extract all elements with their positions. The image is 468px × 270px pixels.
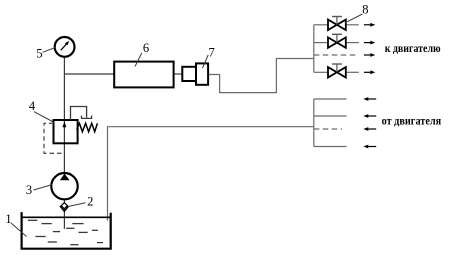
relief valve 4 spring	[77, 123, 98, 131]
wire: block 6 to block 7	[173, 73, 182, 75]
svg-text:5: 5	[36, 47, 42, 61]
leader 1	[11, 223, 27, 237]
wire: junction horizontal to block 6	[64, 73, 114, 75]
inlet arrow row B	[363, 114, 376, 118]
wire: return row A	[314, 98, 347, 100]
wire: row3 valve to outlet	[346, 71, 359, 73]
tank fluid surface	[22, 216, 111, 218]
relief valve 4 pilot seat	[82, 116, 92, 119]
svg-text:3: 3	[26, 183, 32, 197]
gauge 5	[55, 37, 75, 57]
outlet arrow row3	[364, 70, 375, 74]
outlet arrow row2	[364, 41, 375, 45]
wire: supply manifold vertical	[313, 25, 315, 73]
inlet arrow dashed row	[363, 127, 376, 131]
wire: row1 valve to outlet	[346, 24, 359, 26]
wire: main vertical line gauge-to-pump	[63, 57, 65, 173]
wire: return line to tank	[108, 127, 314, 221]
pump 3	[51, 173, 77, 199]
block 6	[114, 62, 173, 88]
outlet arrow dashed row	[364, 53, 375, 57]
wire: block 7 to valve manifold	[208, 59, 314, 93]
valve 8 row2	[328, 34, 346, 48]
svg-text:7: 7	[208, 46, 214, 60]
leader 8	[345, 14, 363, 23]
leader 3	[34, 185, 53, 191]
strainer 2 vee	[60, 206, 69, 211]
leader 4	[34, 112, 53, 122]
tank 1	[22, 212, 111, 249]
wire: suction line pump-to-tank	[63, 199, 65, 229]
leader 7	[203, 55, 209, 68]
leader 2	[68, 203, 86, 207]
svg-text:6: 6	[143, 41, 149, 55]
leader 6	[135, 53, 142, 67]
svg-text:1: 1	[5, 212, 11, 226]
block 7 tall	[196, 63, 208, 84]
wire: row3 manifold to valve	[314, 71, 328, 73]
tank fluid dashes	[28, 220, 103, 244]
valve 8 row1	[328, 17, 346, 31]
wire: return manifold vertical	[313, 99, 315, 147]
wire: row1 manifold to valve	[314, 24, 328, 26]
wire: return dashed row	[314, 128, 342, 130]
outlet arrow row1	[364, 23, 375, 27]
inlet arrow row C	[363, 145, 376, 149]
wire: dashed spare row	[314, 54, 359, 56]
leader 5	[43, 48, 56, 53]
svg-text:от двигателя: от двигателя	[382, 113, 442, 127]
relief valve 4 dashed pilot line	[44, 123, 63, 153]
gauge needle	[61, 43, 67, 50]
relief valve 4 flow arrowhead	[62, 122, 66, 127]
relief valve 4 body	[54, 120, 78, 143]
wire: return row C	[314, 146, 347, 148]
pump triangle	[60, 174, 70, 181]
strainer 2 diamond	[61, 203, 67, 209]
svg-text:2: 2	[87, 195, 93, 209]
wire: return row B	[314, 115, 347, 117]
inlet arrow row A	[363, 97, 376, 101]
wire: row2 manifold to valve	[314, 42, 328, 44]
wire: row2 valve to outlet	[346, 42, 359, 44]
block 7 small	[182, 67, 196, 81]
svg-text:8: 8	[362, 2, 368, 16]
valve 8 row3	[328, 64, 346, 78]
svg-text:к двигателю: к двигателю	[385, 41, 441, 55]
relief valve 4 pilot pipe	[71, 107, 87, 121]
svg-text:4: 4	[29, 99, 36, 113]
